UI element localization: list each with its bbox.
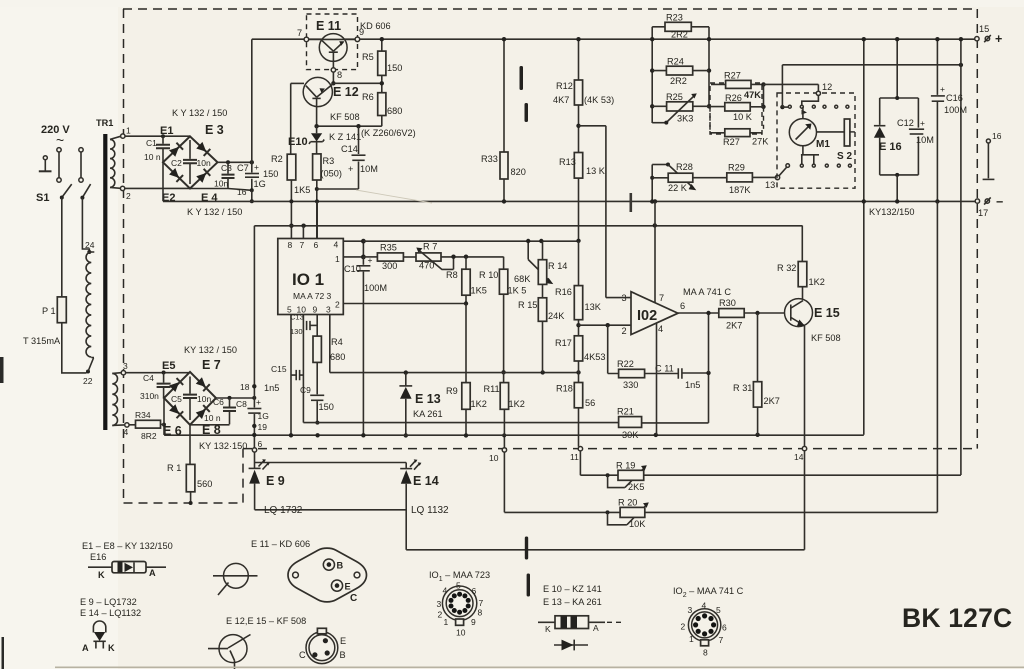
svg-text:1K2: 1K2 [509,399,525,409]
svg-text:E 9 – LQ1732: E 9 – LQ1732 [80,597,137,607]
transformer primary winding [86,252,91,357]
svg-text:14: 14 [794,452,804,462]
terminal 12 [816,91,820,95]
svg-text:680: 680 [330,352,345,362]
svg-text:BK 127C: BK 127C [902,603,1012,633]
svg-text:10 n: 10 n [204,413,221,423]
wire S1 pole2 to terminal 24 [82,198,89,252]
svg-text:24K: 24K [548,311,565,321]
resistor R21 [619,417,642,428]
terminal 2 [120,186,124,190]
svg-text:(050): (050) [321,169,342,179]
svg-text:68K: 68K [514,274,531,284]
svg-text:E 13 – KA 261: E 13 – KA 261 [543,597,602,607]
svg-text:6: 6 [680,301,685,311]
svg-text:E5: E5 [162,360,175,372]
node 10 [502,448,506,452]
svg-text:E 12,E 15 – KF 508: E 12,E 15 – KF 508 [226,616,306,626]
svg-text:13K: 13K [585,302,602,312]
svg-text:2K5: 2K5 [628,482,644,492]
ink mark rail tick [630,193,633,212]
svg-text:E 7: E 7 [202,358,221,372]
switch S1 pole 1 [57,148,61,152]
svg-text:4K53: 4K53 [584,352,605,362]
IO2 pin4 lead down to rail [656,323,658,435]
C11 riser to op-amp output [708,313,710,373]
svg-text:2K7: 2K7 [764,396,780,406]
resistor R11 [501,370,505,374]
resistor R10 [503,257,505,270]
pot R20 [504,452,620,512]
crease line [356,190,432,203]
svg-text:E 10 – KZ 141: E 10 – KZ 141 [543,584,602,594]
svg-text:2K7: 2K7 [726,321,742,331]
svg-text:E 9: E 9 [266,474,285,488]
potentiometer R14 [527,241,529,260]
svg-text:15: 15 [979,24,989,34]
resistor R1 [189,425,191,465]
svg-text:K Y 132 / 150: K Y 132 / 150 [172,108,227,118]
svg-text:A: A [149,568,156,578]
diode E16 symbol [874,127,886,138]
potentiometer R25 [652,105,709,107]
svg-text:18: 18 [240,382,250,392]
svg-text:2R2: 2R2 [671,30,688,40]
svg-text:R3: R3 [323,156,335,166]
svg-text:~: ~ [56,132,64,148]
svg-text:310n: 310n [140,391,159,401]
svg-text:6: 6 [314,240,319,250]
svg-text:4: 4 [702,601,707,611]
svg-text:27K: 27K [752,137,769,147]
bridge rectifier E1-E4 diamond [163,136,218,188]
svg-text:10 K: 10 K [733,112,753,122]
wire terminal2 to bridge bottom [125,187,190,189]
svg-text:10n: 10n [197,394,211,404]
svg-text:R30: R30 [719,298,736,308]
diode E6 [169,404,183,418]
IO2 pin2 line [579,324,632,326]
svg-text:8: 8 [703,648,708,658]
diode E2 [169,168,183,182]
switch wire from 12 [802,95,819,104]
wire C16 column down to R20 line [936,201,938,512]
svg-text:R33: R33 [481,154,498,164]
svg-text:1n5: 1n5 [264,383,279,393]
IO2 output wire [678,312,719,314]
svg-text:KF 508: KF 508 [811,333,841,343]
svg-text:10 n: 10 n [144,152,161,162]
svg-text:R 14: R 14 [548,261,567,271]
resistor R24 [652,70,709,72]
svg-text:10M: 10M [360,164,378,174]
svg-text:KY 132 / 150: KY 132 / 150 [184,345,237,355]
resistor R4 [313,336,321,362]
terminal 3 [121,371,125,375]
svg-text:R16: R16 [555,287,572,297]
capacitor C3 [227,162,229,188]
svg-text:10K: 10K [629,519,646,529]
svg-text:300: 300 [382,261,397,271]
legend transistor bottom view [224,563,249,588]
svg-text:K Y 132 / 150: K Y 132 / 150 [187,207,242,217]
svg-text:1G: 1G [254,179,266,189]
svg-text:8: 8 [478,608,483,618]
svg-text:2R2: 2R2 [670,76,687,86]
svg-text:C12: C12 [897,118,914,128]
svg-text:10n: 10n [214,179,228,189]
resistor R31 [757,313,759,382]
svg-text:24: 24 [85,240,95,250]
enclosure dashed border bottom-left [124,502,244,504]
svg-text:6: 6 [472,586,477,596]
resistor R16 [578,241,580,286]
svg-text:R26: R26 [725,93,742,103]
resistor R17 [574,336,582,361]
svg-text:A: A [82,643,89,653]
dashed box S2 meter block [777,93,855,188]
resistor R32 [798,262,807,287]
legend TO-3 package [288,548,367,602]
potentiometer R28 [651,165,653,202]
capacitor C10 [362,257,364,265]
svg-text:47K: 47K [744,90,761,100]
ink mark 3 [525,537,528,560]
svg-text:E16: E16 [90,552,106,562]
transformer secondary 2 winding [112,373,117,425]
wire bridge plus output [218,161,252,163]
transformer TR1 core [103,134,107,430]
svg-text:KA 261: KA 261 [413,409,443,419]
svg-text:1G: 1G [258,411,269,421]
node 11 [578,447,582,451]
svg-text:+: + [920,118,925,128]
svg-text:E: E [345,582,351,592]
svg-text:C4: C4 [143,373,154,383]
node 22 [86,370,90,374]
terminal 16 link [986,139,990,143]
terminal 4 [125,423,129,427]
svg-text:C15: C15 [271,364,287,374]
svg-text:E 6: E 6 [163,424,182,438]
resistor R6 [378,93,386,116]
svg-text:C10: C10 [344,264,361,274]
svg-text:2: 2 [126,191,131,201]
right vertical to R19 line [960,39,962,475]
svg-text:C: C [299,650,306,660]
transistor E15 [785,299,813,327]
wire meter top line to plus bus [782,64,961,66]
IO1 pin3 line [330,315,579,373]
svg-text:R4: R4 [331,337,343,347]
svg-text:22 K: 22 K [668,183,688,193]
switch S1 pole 2 [79,148,83,152]
IO1 pin5 column [290,315,292,436]
node 6 [252,448,256,452]
svg-text:R 32: R 32 [777,263,796,273]
svg-text:8R2: 8R2 [141,431,157,441]
IO1 box [278,239,344,315]
svg-text:R18: R18 [556,384,573,394]
svg-text:R22: R22 [617,359,634,369]
svg-text:(K Z260/6V2): (K Z260/6V2) [361,128,416,138]
svg-text:C 11: C 11 [655,364,674,374]
svg-text:56: 56 [585,398,595,408]
wire S1 pole1 to fuse [61,198,63,297]
svg-text:+: + [254,162,259,172]
svg-text:100M: 100M [364,283,387,293]
resistor R23 [652,26,709,28]
op-amp IO2 [631,292,678,335]
svg-text:C14: C14 [341,144,358,154]
dashed box R26/R27 [710,83,762,134]
meter M1 [789,119,816,146]
svg-text:R24: R24 [667,57,684,67]
svg-text:T 315mA: T 315mA [23,336,61,346]
svg-text:R 20: R 20 [618,498,637,508]
svg-text:560: 560 [197,479,212,489]
svg-text:22: 22 [83,376,93,386]
svg-text:19: 19 [258,422,268,432]
diode E16 box [896,39,898,98]
svg-text:R8: R8 [446,270,458,280]
svg-text:7: 7 [719,635,724,645]
svg-text:KF 508: KF 508 [330,112,360,122]
ink mark 1 [520,66,524,90]
wire y=225.6 corner to R32 [801,226,803,262]
svg-text:3K3: 3K3 [677,114,693,124]
svg-text:2: 2 [438,610,443,620]
wire bridge2 bottom vertex to C6 [190,424,230,426]
svg-text:8: 8 [337,70,342,80]
diode E5 [169,378,183,392]
capacitor C4 [163,373,165,399]
svg-text:1K 5: 1K 5 [508,286,527,296]
diode E7 [196,377,210,391]
left edge marks [0,357,4,383]
svg-text:KD 606: KD 606 [360,21,391,31]
resistor R27 upper [711,83,764,85]
svg-text:S 2: S 2 [837,151,852,162]
legend diode symbol [88,566,166,568]
IO1 pin10 column [302,315,304,423]
svg-text:P 1: P 1 [42,306,56,316]
enclosure dashed border left [123,9,125,503]
svg-text:+: + [256,397,261,407]
legend LED symbol [93,621,105,633]
capacitor C7 [251,162,253,190]
resistor R26 [709,106,764,108]
svg-text:TR1: TR1 [96,118,113,128]
svg-text:7: 7 [300,240,305,250]
svg-text:9: 9 [313,305,318,315]
IO1 pin2 line [343,303,466,305]
svg-text:150: 150 [319,402,334,412]
svg-text:E 12: E 12 [333,85,359,99]
svg-text:150: 150 [387,63,402,73]
svg-text:13 K: 13 K [586,166,606,176]
wire primary bottom [88,358,94,372]
svg-text:MA A 72 3: MA A 72 3 [293,291,332,301]
svg-text:R13: R13 [559,157,576,167]
svg-text:R 10: R 10 [479,270,498,280]
wire fuse to terminal 22 [62,323,87,373]
svg-text:E 14 – LQ1132: E 14 – LQ1132 [80,608,141,618]
svg-text:130: 130 [290,327,303,336]
enclosure dashed border right [976,9,978,449]
enclosure dashed border step [242,449,244,503]
svg-text:17: 17 [978,208,988,218]
resistor R15 [538,298,546,322]
svg-text:1K2: 1K2 [471,399,487,409]
svg-text:R17: R17 [555,338,572,348]
wire terminal 12 riser to meter line [781,65,783,107]
legend diode with bands [538,621,605,623]
svg-text:820: 820 [511,167,526,177]
column x=254 nodes 18 19 and capacitor C8 [253,226,255,408]
capacitor C14 [317,126,359,189]
fuse P1 [57,297,66,323]
legend IO2 socket [688,609,720,641]
svg-text:LQ 1132: LQ 1132 [411,505,449,516]
IO1 pin9 column [316,315,318,337]
svg-text:187K: 187K [729,185,751,195]
capacitor C5 [189,377,191,421]
svg-text:R11: R11 [484,384,500,394]
svg-text:K: K [108,643,115,653]
svg-text:6: 6 [258,439,263,449]
svg-text:C6: C6 [213,397,224,407]
wire bridge bottom to node 16 [190,189,252,191]
svg-text:3: 3 [437,599,442,609]
svg-text:150: 150 [263,169,278,179]
svg-text:330: 330 [623,380,638,390]
svg-text:4: 4 [334,240,339,250]
wire R12/R13 junction to IO2 pin3 [579,126,606,298]
svg-text:C7: C7 [237,163,249,173]
svg-text:K: K [98,570,105,580]
bridge2 plus wire [216,397,254,399]
wire to terminal 12 [761,82,765,86]
diode E4 [196,169,210,183]
LED E14 [405,463,407,469]
svg-text:E 13: E 13 [415,392,441,406]
IO1 pin6 stub [316,201,318,238]
terminal 13 [775,175,779,179]
svg-text:100M: 100M [944,105,967,115]
dashed mid line with nodes 6 10 11 14 [243,448,977,450]
svg-text:8: 8 [288,240,293,250]
pot R19 [580,451,618,475]
contact row top [788,105,791,108]
capacitor C6 [229,398,231,425]
svg-text:C3: C3 [221,163,232,173]
svg-text:KY 132·150: KY 132·150 [199,441,247,451]
svg-text:E10: E10 [288,136,308,148]
svg-text:R28: R28 [676,162,693,172]
wire E12 emitter / E10 / C14 / R6 bottom [317,125,382,127]
svg-text:S1: S1 [36,192,49,204]
svg-text:R6: R6 [362,92,374,102]
meter bottom contact bracket [801,146,819,164]
line y=422.6 pin10 to R21 to C11 [303,373,708,423]
svg-text:R5: R5 [362,52,374,62]
svg-text:2: 2 [335,300,340,310]
IO1 pin4 and pin1 net [343,241,363,257]
svg-text:7: 7 [479,598,484,608]
mains plug pin symbol [43,156,47,160]
svg-text:R34: R34 [135,410,151,420]
bridge rectifier E5-E8 diamond [164,372,216,425]
svg-text:E 16: E 16 [879,141,902,153]
terminal 15 [975,37,979,41]
svg-text:IO 1: IO 1 [292,270,324,289]
svg-text:R9: R9 [446,386,458,396]
capacitor C16 [936,39,938,95]
capacitor C15 [291,374,303,376]
trimmer R7 [416,253,441,261]
svg-text:MA A 741 C: MA A 741 C [683,287,731,297]
svg-text:680: 680 [387,106,402,116]
resistor R22 [608,325,619,373]
diode E8 [196,405,210,419]
resistor R29 [727,173,753,182]
svg-text:3: 3 [326,305,331,315]
svg-text:R27: R27 [723,137,740,147]
capacitor C1 [161,134,165,138]
svg-text:1: 1 [335,254,340,264]
svg-text:9: 9 [471,617,476,627]
svg-text:C2: C2 [171,158,182,168]
svg-text:C16: C16 [946,93,963,103]
node 14 [802,446,806,450]
svg-text:13: 13 [765,180,775,190]
resistor R30 [719,309,744,318]
capacitor C2 [189,140,191,184]
svg-text:C1: C1 [146,138,157,148]
svg-text:B: B [337,561,344,571]
svg-text:4: 4 [124,427,129,437]
svg-text:12: 12 [822,82,832,92]
svg-text:16: 16 [237,187,247,197]
bridge2 left vertex to rail [163,398,165,435]
svg-text:+: + [995,32,1002,46]
wire E12 collector to R5/R6 junction [333,82,381,84]
svg-text:(4K 53): (4K 53) [584,95,614,105]
svg-text:1K5: 1K5 [294,185,310,195]
svg-text:+: + [348,164,353,174]
lower rail (minus bus) [163,162,975,201]
svg-text:1: 1 [126,126,131,136]
resistor R8 [465,257,467,270]
svg-text:KY132/150: KY132/150 [869,207,914,217]
svg-text:LQ 1732: LQ 1732 [264,505,303,516]
svg-text:I02: I02 [637,308,657,324]
svg-text:C8: C8 [236,399,247,409]
svg-text:K: K [545,624,551,634]
svg-text:−: − [996,195,1003,209]
svg-text:3: 3 [688,605,693,615]
resistor R12 [578,39,580,80]
top rail [252,38,975,40]
IO2 pin7 riser [654,225,656,302]
svg-text:5: 5 [716,605,721,615]
svg-text:1: 1 [444,617,449,627]
node 24 [87,250,91,254]
svg-text:E 3: E 3 [205,123,224,137]
svg-text:1K5: 1K5 [471,286,487,296]
svg-text:+: + [940,84,945,94]
